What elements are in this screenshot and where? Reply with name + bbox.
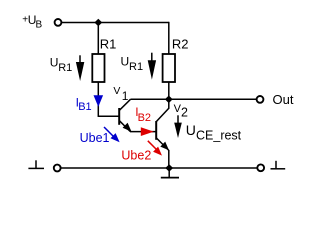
ground right <box>271 161 286 169</box>
label V1 <box>113 85 128 103</box>
transistor V1 <box>119 99 130 131</box>
voltage arrow Ube1 <box>104 127 120 142</box>
wire V1 base <box>98 115 118 117</box>
voltage arrow UR1 left <box>76 55 84 81</box>
svg-text:2: 2 <box>181 105 188 119</box>
wire V1 collector to node B <box>131 98 169 100</box>
label V2 <box>174 103 188 119</box>
svg-text:1: 1 <box>122 89 129 103</box>
svg-text:B1: B1 <box>78 101 91 113</box>
label UR1 right <box>121 55 144 74</box>
wire R1 bottom <box>97 82 99 117</box>
wire V2 collector up <box>168 99 170 109</box>
ground center <box>161 168 179 178</box>
wire V2 emitter down <box>168 150 170 168</box>
svg-text:Ube2: Ube2 <box>121 148 151 162</box>
node Out terminal <box>257 96 264 103</box>
svg-text:U: U <box>121 55 130 69</box>
junction node A <box>94 19 102 27</box>
wire R1 top <box>97 23 99 55</box>
wire node B to Out <box>169 98 256 100</box>
node ground-left terminal <box>54 165 61 172</box>
label UR1 left <box>50 56 72 75</box>
junction node C <box>165 164 173 172</box>
svg-text:CE_rest: CE_rest <box>196 129 242 143</box>
ground left <box>28 160 44 168</box>
svg-text:B: B <box>36 19 43 30</box>
current arrow IB1 <box>94 95 104 107</box>
resistor R2 <box>163 54 175 82</box>
transistor V1 emitter arrow <box>123 123 132 132</box>
label UCE_rest <box>186 122 242 143</box>
svg-text:R1: R1 <box>58 62 72 74</box>
voltage arrow UR1 right <box>148 53 156 80</box>
junction node B <box>165 96 173 104</box>
svg-text:R1: R1 <box>100 37 117 52</box>
svg-text:V: V <box>113 85 120 97</box>
wire R2 bottom <box>168 82 170 99</box>
svg-text:U: U <box>50 56 59 70</box>
voltage arrow Ube2 <box>148 141 162 156</box>
label IB2 <box>135 105 151 124</box>
current arrow IB2 <box>141 127 154 136</box>
wire top rail <box>62 22 169 24</box>
node ground-right terminal <box>257 164 264 171</box>
resistor R1 <box>92 54 104 82</box>
svg-text:U: U <box>186 122 196 138</box>
label IB1 <box>76 95 92 113</box>
transistor V2 <box>156 108 169 150</box>
wire R2 top <box>168 22 170 54</box>
wire ground rail <box>61 167 257 169</box>
wire V1 emitter to V2 base <box>130 131 156 133</box>
svg-text:R2: R2 <box>172 37 189 52</box>
svg-text:Out: Out <box>273 92 294 107</box>
svg-text:R1: R1 <box>129 61 143 73</box>
svg-text:B2: B2 <box>138 112 151 124</box>
transistor V2 emitter arrow <box>160 142 169 151</box>
label +UB <box>22 13 42 30</box>
svg-text:Ube1: Ube1 <box>80 131 110 145</box>
voltage arrow UCE_rest <box>174 115 182 138</box>
node +UB terminal <box>55 19 62 26</box>
